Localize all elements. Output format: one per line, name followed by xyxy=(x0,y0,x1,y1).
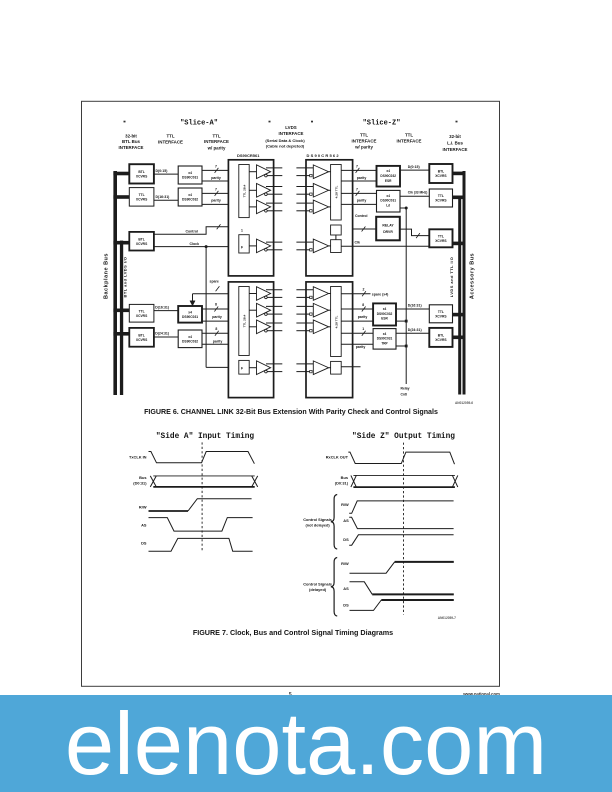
wire data S1 to U1 xyxy=(202,169,239,171)
junction square node 1 xyxy=(405,320,408,323)
box R1 BTL transceiver xyxy=(129,164,154,183)
svg-text:LVDS and TTL I/O: LVDS and TTL I/O xyxy=(449,257,454,298)
svg-text:R/W: R/W xyxy=(341,502,349,507)
svg-text:Control Signals: Control Signals xyxy=(303,582,332,587)
wire U4 spare out xyxy=(341,293,370,295)
U4 LVDS input pair 3 xyxy=(296,322,313,324)
receiver U2 DS90CR562 xyxy=(306,160,353,276)
elenota banner xyxy=(0,695,612,792)
svg-text:TTL: TTL xyxy=(212,133,220,138)
svg-text:INTERFACE: INTERFACE xyxy=(119,145,144,150)
U3 input mux box xyxy=(239,287,249,356)
svg-text:x4: x4 xyxy=(386,169,390,173)
svg-text:BTL: BTL xyxy=(438,170,444,174)
waveform R/W left xyxy=(149,510,189,512)
svg-text:TTL: TTL xyxy=(438,235,444,239)
U2 LVDS input pair 2 xyxy=(296,186,313,188)
svg-text:TTL: TTL xyxy=(405,133,413,138)
box B2 TTL drivers xyxy=(429,189,452,207)
svg-text:DS: DS xyxy=(141,541,147,546)
svg-text:8: 8 xyxy=(215,303,217,307)
svg-text:parity: parity xyxy=(212,315,222,319)
waveform DS group1 xyxy=(349,535,453,545)
svg-text:BTL: BTL xyxy=(438,334,444,338)
waveform AS group1 xyxy=(349,517,453,528)
wire ESR2 out D(16:31) xyxy=(396,308,429,310)
waveform Bus left xyxy=(153,475,254,477)
svg-text:(not delayed): (not delayed) xyxy=(305,522,330,527)
svg-text:7: 7 xyxy=(356,164,358,168)
U4 LVDS receiver B3 xyxy=(313,320,328,334)
svg-text:parity: parity xyxy=(357,176,367,180)
svg-text:D(0:15): D(0:15) xyxy=(408,165,420,169)
svg-text:XCVRS: XCVRS xyxy=(435,174,447,178)
svg-text:INTERFACE: INTERFACE xyxy=(443,147,468,152)
waveform DS left xyxy=(149,538,253,551)
svg-text:DS90C032: DS90C032 xyxy=(380,174,396,178)
svg-text:INTERFACE: INTERFACE xyxy=(352,138,377,143)
junction clock node xyxy=(205,245,208,248)
wire data S5 to U3 xyxy=(202,332,239,334)
bus stub from B5 xyxy=(452,336,465,340)
svg-text:BTL: BTL xyxy=(138,237,144,241)
svg-text:spare: spare xyxy=(210,280,219,284)
svg-text:AN012059-6: AN012059-6 xyxy=(455,401,473,405)
wire data S2 to U1 xyxy=(202,192,239,194)
U4 LVDS receiver B2 xyxy=(313,303,328,317)
svg-text:D(16:31): D(16:31) xyxy=(155,305,169,309)
wire U4 data out to box2R xyxy=(341,332,373,334)
bus stub from B3 xyxy=(452,242,465,246)
svg-text:parity: parity xyxy=(356,345,366,349)
svg-text:XCVRS: XCVRS xyxy=(136,338,148,342)
svg-text:XCVRS: XCVRS xyxy=(435,314,447,318)
box ESR x4 DS90C032 xyxy=(377,166,401,187)
bus stub to box R5 xyxy=(113,332,129,336)
svg-text:INTERFACE: INTERFACE xyxy=(279,131,304,136)
wire relay driver output jog xyxy=(400,229,430,236)
U3 LVDS clock output pair xyxy=(266,363,282,365)
svg-text:TTL: TTL xyxy=(438,310,444,314)
wire parity S1 to U1 xyxy=(202,180,239,182)
U1 LVDS clock driver xyxy=(257,239,271,253)
svg-text:4:28 TTL: 4:28 TTL xyxy=(334,186,338,199)
svg-text:(Serial Data & Clock): (Serial Data & Clock) xyxy=(265,138,305,143)
U1 LVDS output pair 2 xyxy=(266,186,282,188)
wire U4 parity out xyxy=(341,320,373,322)
svg-text:TxCLK IN: TxCLK IN xyxy=(129,455,147,460)
svg-text:R/W: R/W xyxy=(341,561,349,566)
wire U4 clock out stub xyxy=(341,366,360,368)
bus stub to box R4 xyxy=(113,309,129,313)
waveform TxCLK IN xyxy=(149,452,255,464)
U4 LVDS clock input pair xyxy=(296,363,313,365)
svg-text:"Slice-Z": "Slice-Z" xyxy=(363,119,401,127)
svg-text:7: 7 xyxy=(215,187,217,191)
svg-text:DS90C031: DS90C031 xyxy=(377,337,393,341)
svg-text:DS90C032: DS90C032 xyxy=(377,312,393,316)
U1 LVDS output pair 1 xyxy=(266,167,282,169)
wire D(16:31) lower xyxy=(154,310,178,312)
waveform AS group2 xyxy=(350,582,373,595)
svg-text:XCVRS: XCVRS xyxy=(136,197,148,201)
svg-text:BTL: BTL xyxy=(138,170,144,174)
U1 input mux box xyxy=(239,165,249,218)
U4 LVDS input pair 2 xyxy=(296,305,313,307)
svg-text:DRVR: DRVR xyxy=(383,230,393,234)
U2 LVDS input pair 3 xyxy=(296,202,313,204)
U3 LVDS driver A3 xyxy=(257,320,271,334)
U1 internal wires xyxy=(249,171,256,173)
svg-text:TTL: TTL xyxy=(438,194,444,198)
svg-text:BTL: BTL xyxy=(138,334,144,338)
svg-text:TTL: TTL xyxy=(139,193,145,197)
box 2R x4 DS90C031 xyxy=(373,329,396,350)
svg-text:TTL: TTL xyxy=(360,133,368,138)
svg-text:AS: AS xyxy=(141,522,147,527)
box Ld x4 DS90C031 xyxy=(377,190,401,212)
svg-text:8: 8 xyxy=(215,327,217,331)
svg-text:32-bit: 32-bit xyxy=(449,134,461,139)
U4 internal wires xyxy=(329,293,331,295)
svg-text:F: F xyxy=(241,246,243,250)
svg-text:Control: Control xyxy=(186,230,198,234)
svg-text:R/W: R/W xyxy=(139,504,147,509)
svg-text:DS: DS xyxy=(343,537,349,542)
U3 LVDS output pair 3 xyxy=(266,322,282,324)
brace control group 2 xyxy=(331,558,337,617)
svg-text:1: 1 xyxy=(241,229,243,233)
svg-text:XCVRS: XCVRS xyxy=(136,314,148,318)
bus stub from B4 xyxy=(452,313,465,317)
U4 output demux box xyxy=(331,287,342,357)
svg-text:FIGURE 7. Clock, Bus and Contr: FIGURE 7. Clock, Bus and Control Signal … xyxy=(193,628,393,637)
svg-text:Clock: Clock xyxy=(190,242,200,246)
svg-text:D(0:15): D(0:15) xyxy=(156,169,168,173)
wire parity S2 to U1 xyxy=(202,203,239,205)
wire ESR out D(0:15) xyxy=(400,169,429,171)
svg-text:D(24:31): D(24:31) xyxy=(155,332,169,336)
box S1 x4 DS90C031 xyxy=(178,166,202,184)
svg-text:TRP: TRP xyxy=(381,341,388,345)
backplane bus rail 1 xyxy=(113,171,117,395)
wire U2 parity out xyxy=(341,180,376,182)
svg-text:D(16:31): D(16:31) xyxy=(156,195,170,199)
wire parity S5 to U3 xyxy=(202,343,239,345)
svg-text:BTL and LVDS I/O: BTL and LVDS I/O xyxy=(123,257,128,298)
U1 flip-flop box xyxy=(239,235,249,253)
svg-text:Control Signals: Control Signals xyxy=(303,517,332,522)
bus stub from B1 xyxy=(452,172,465,176)
svg-text:L.I. Bus: L.I. Bus xyxy=(447,141,463,146)
svg-text:Relay: Relay xyxy=(401,386,410,390)
svg-text:"Side A" Input Timing: "Side A" Input Timing xyxy=(156,433,255,441)
U1 LVDS driver A1 xyxy=(257,165,271,179)
svg-text:XCVRS: XCVRS xyxy=(136,242,148,246)
box R2 TTL transceiver xyxy=(129,188,154,207)
svg-text:FIGURE 6. CHANNEL LINK 32-Bit: FIGURE 6. CHANNEL LINK 32-Bit Bus Extens… xyxy=(144,408,438,416)
U2 LVDS receiver B3 xyxy=(313,200,328,214)
svg-text:Clk: Clk xyxy=(355,241,361,245)
bus stub to box R2 xyxy=(113,195,129,199)
svg-text:XCVRS: XCVRS xyxy=(435,338,447,342)
svg-text:INTERFACE: INTERFACE xyxy=(204,139,229,144)
bus stub to box R3 xyxy=(113,241,129,245)
svg-text:"Side Z" Output Timing: "Side Z" Output Timing xyxy=(352,433,455,441)
U2 LVDS receiver B1 xyxy=(313,165,328,179)
wire 2R out to relay node xyxy=(396,345,406,347)
svg-text:TTL: TTL xyxy=(139,309,145,313)
svg-text:(Cable not depicted): (Cable not depicted) xyxy=(266,144,305,149)
svg-text:XCVRS: XCVRS xyxy=(435,239,447,243)
box B5 BTL drivers xyxy=(429,328,452,347)
U3 LVDS driver A2 xyxy=(257,303,271,317)
box R4 TTL transceiver xyxy=(129,304,154,322)
backplane bus rail 2 xyxy=(120,241,123,395)
waveform R/W group1 xyxy=(349,501,453,513)
svg-text:BTL Bus: BTL Bus xyxy=(122,139,141,144)
svg-text:TTL 28:4: TTL 28:4 xyxy=(242,184,246,197)
box relay driver xyxy=(376,217,400,241)
svg-text:AN012059-7: AN012059-7 xyxy=(438,616,456,620)
U3 LVDS clock driver xyxy=(257,361,271,375)
svg-text:DS90C031: DS90C031 xyxy=(182,176,198,180)
wire relay control vertical xyxy=(405,208,407,384)
waveform AS left xyxy=(149,518,253,532)
svg-text:TTL 28:4: TTL 28:4 xyxy=(242,314,246,327)
svg-text:(D0:31): (D0:31) xyxy=(335,480,349,485)
U4 LVDS input pair 1 xyxy=(296,289,313,291)
junction relay control node xyxy=(405,207,408,210)
wire D(24:31) xyxy=(154,336,178,338)
wire D(16:31) xyxy=(154,199,178,201)
brace control group 1 xyxy=(331,495,337,550)
box ESR2 x4 DS90C032 xyxy=(373,303,396,325)
junction square node 2 xyxy=(405,345,408,348)
wire Ld out Clk xyxy=(400,195,429,197)
wire clock vertical to U3 xyxy=(205,247,207,368)
svg-text:AS: AS xyxy=(343,586,349,591)
svg-text:Ld: Ld xyxy=(386,204,390,208)
svg-text:D(16:31): D(16:31) xyxy=(408,304,422,308)
U2 fifo box xyxy=(331,225,342,235)
U1 LVDS output pair 3 xyxy=(266,202,282,204)
box B1 BTL drivers xyxy=(429,164,452,183)
box R5 BTL transceiver xyxy=(129,328,154,347)
bus stub to box R1 xyxy=(113,172,129,176)
svg-text:x4: x4 xyxy=(383,307,387,311)
svg-text:Accessory Bus: Accessory Bus xyxy=(470,253,476,299)
svg-text:parity: parity xyxy=(357,199,367,203)
svg-text:INTERFACE: INTERFACE xyxy=(158,139,183,144)
dashed line right xyxy=(403,443,405,615)
U2 LVDS input pair 1 xyxy=(296,167,313,169)
U2 output demux box xyxy=(331,165,342,221)
wire ESR2 out to relay node xyxy=(396,320,406,322)
svg-text:2: 2 xyxy=(363,288,365,292)
svg-text:x4: x4 xyxy=(188,171,192,175)
svg-text:7: 7 xyxy=(356,187,358,191)
svg-text:7: 7 xyxy=(215,164,217,168)
wire U2 data out to Ld box xyxy=(341,192,376,194)
U2 LVDS clock input pair xyxy=(296,241,313,243)
svg-text:XCVRS: XCVRS xyxy=(435,199,447,203)
U2 internal wires xyxy=(329,171,331,173)
box B4 TTL drivers xyxy=(429,305,452,323)
svg-text:parity: parity xyxy=(211,176,221,180)
transmitter U1 DS90CR561 xyxy=(228,160,273,276)
svg-text:spare (x4): spare (x4) xyxy=(372,292,389,296)
svg-text:DS90CR562: DS90CR562 xyxy=(307,153,340,158)
box S5 x4 DS90C032 xyxy=(178,330,202,348)
svg-text:Backplane Bus: Backplane Bus xyxy=(104,253,110,299)
wire U2 data out to ESR box xyxy=(341,169,376,171)
U3 flip-flop box xyxy=(239,360,249,374)
svg-text:RxCLK OUT: RxCLK OUT xyxy=(326,455,349,460)
U1 LVDS driver A3 xyxy=(257,200,271,214)
svg-text:8: 8 xyxy=(362,303,364,307)
waveform Bus right xyxy=(353,474,455,476)
dashed line left xyxy=(201,442,203,551)
wire U4 parity out 2 xyxy=(341,343,373,345)
svg-text:Bus: Bus xyxy=(139,475,146,480)
svg-text:Bus: Bus xyxy=(341,475,348,480)
waveform DS group2 xyxy=(350,600,382,610)
svg-text:w/ parity: w/ parity xyxy=(354,145,373,150)
wire U2 parity out 2 xyxy=(341,203,376,205)
tick marks row xyxy=(124,121,126,123)
svg-text:parity: parity xyxy=(358,315,368,319)
svg-text:DS90CR561: DS90CR561 xyxy=(237,153,260,158)
box B3 TTL drivers xyxy=(429,229,452,247)
svg-text:DS90C031: DS90C031 xyxy=(182,315,198,319)
svg-text:DS90C032: DS90C032 xyxy=(182,198,198,202)
wire 2R out D(24:31) xyxy=(396,332,429,334)
svg-text:32-bit: 32-bit xyxy=(125,133,137,138)
U1 LVDS clock output pair xyxy=(266,241,282,243)
waveform R/W group2 xyxy=(350,562,395,573)
svg-text:x4: x4 xyxy=(383,332,387,336)
receiver U4 DS90CR562 xyxy=(306,282,353,398)
U4 LVDS receiver B1 xyxy=(313,287,328,301)
svg-text:1: 1 xyxy=(362,327,364,331)
svg-text:(delayed): (delayed) xyxy=(309,587,327,592)
svg-text:x4: x4 xyxy=(188,193,192,197)
U4 flip-flop box xyxy=(331,361,342,374)
box S4 x4 DS90C031 xyxy=(178,306,202,323)
svg-text:DS90C032: DS90C032 xyxy=(182,339,198,343)
accessory bus rail 2 xyxy=(458,196,461,395)
accessory bus rail 1 xyxy=(463,171,466,395)
svg-text:Control: Control xyxy=(355,214,367,218)
svg-text:TTL: TTL xyxy=(166,134,174,139)
wire U4 data out to ESR2 xyxy=(341,308,373,310)
wire parity S4 to U3 xyxy=(202,320,239,322)
waveform RxCLK OUT xyxy=(348,452,454,464)
svg-text:Cntl: Cntl xyxy=(401,392,408,396)
page border frame xyxy=(82,101,500,686)
U2 flip-flop box xyxy=(331,240,342,253)
svg-text:x4: x4 xyxy=(188,335,192,339)
svg-text:XCVRS: XCVRS xyxy=(136,174,148,178)
svg-text:parity: parity xyxy=(213,339,223,343)
U3 LVDS output pair 2 xyxy=(266,305,282,307)
svg-text:DS90C031: DS90C031 xyxy=(380,199,396,203)
U3 LVDS output pair 1 xyxy=(266,289,282,291)
svg-text:INTERFACE: INTERFACE xyxy=(397,138,422,143)
svg-text:(D0:31): (D0:31) xyxy=(133,480,147,485)
svg-text:RELAY: RELAY xyxy=(382,224,394,228)
wire Ld out to relay control node xyxy=(400,207,406,209)
box S2 x4 DS90C032 xyxy=(178,188,202,206)
U2 LVDS clock receiver xyxy=(313,239,328,253)
svg-text:w/ parity: w/ parity xyxy=(207,146,226,151)
svg-text:x4: x4 xyxy=(386,194,390,198)
svg-text:D(24:31): D(24:31) xyxy=(408,328,422,332)
svg-text:LVDS: LVDS xyxy=(285,125,296,130)
svg-text:parity: parity xyxy=(211,199,221,203)
U3 LVDS driver A1 xyxy=(257,287,271,301)
wire D(0:15) xyxy=(154,173,178,175)
U2 LVDS receiver B2 xyxy=(313,184,328,198)
svg-text:Clk (33 MHz): Clk (33 MHz) xyxy=(408,191,428,195)
svg-text:4:28 TTL: 4:28 TTL xyxy=(334,316,338,329)
svg-text:ESR: ESR xyxy=(385,179,392,183)
U1 LVDS driver A2 xyxy=(257,184,271,198)
svg-text:DS: DS xyxy=(343,603,349,608)
svg-text:AS: AS xyxy=(343,518,349,523)
bus stub from B2 xyxy=(452,196,465,200)
svg-text:"Slice-A": "Slice-A" xyxy=(180,119,218,127)
wire data S4 to U3 xyxy=(202,308,239,310)
U3 internal wires xyxy=(249,293,256,295)
svg-text:F: F xyxy=(241,367,243,371)
svg-text:ESR: ESR xyxy=(381,317,388,321)
svg-text:x4: x4 xyxy=(188,311,192,315)
transmitter U3 DS90CR561 xyxy=(228,282,273,398)
box R3 BTL transceiver xyxy=(129,232,154,251)
U4 LVDS clock receiver xyxy=(313,361,328,375)
